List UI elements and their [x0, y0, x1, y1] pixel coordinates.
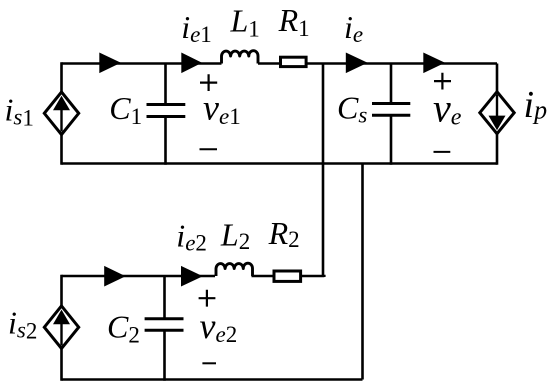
arrow on bottom circuit rail after is2 — [104, 266, 125, 287]
current source is1 diamond — [44, 92, 78, 135]
current source is2 inner arrow — [60, 322, 62, 346]
arrow on top rail after is1 — [99, 53, 121, 74]
wire: left vertical bottom circuit — [60, 275, 63, 381]
capacitor Cs plates — [372, 104, 410, 116]
wire: top circuit bottom rail — [62, 162, 498, 165]
inductor L2 — [216, 263, 253, 276]
arrow after Cs node — [423, 53, 445, 74]
wire: vertical from top bottom rail to lower bottom rail — [361, 164, 364, 380]
inductor L1 — [222, 51, 259, 64]
plus sign ve1 — [200, 74, 217, 91]
wire: bottom circuit top rail right segment — [252, 276, 325, 277]
current source ip diamond — [480, 92, 514, 134]
wire: Cs branch stubs — [390, 64, 393, 165]
wire: C2 branch stubs — [163, 276, 166, 381]
node A: vertical from R1 output node down to R2 output — [322, 64, 325, 277]
resistor R1 — [281, 57, 307, 66]
plus sign ve — [434, 73, 451, 90]
plus sign ve2 — [199, 290, 216, 307]
current source is2 diamond — [44, 306, 78, 349]
wire: right vertical top circuit — [496, 64, 499, 165]
wire: top rail left segment — [62, 62, 222, 65]
wire: C1 branch stubs — [164, 64, 167, 165]
wire: top rail right segment — [258, 62, 497, 65]
minus sign ve2 — [202, 362, 216, 364]
current source is1 inner arrow — [60, 108, 62, 132]
wire: bottom circuit top rail left segment — [62, 275, 216, 278]
capacitor C1 plates — [147, 105, 186, 117]
arrow ie2 — [181, 266, 203, 287]
wire: left vertical top circuit — [60, 62, 63, 165]
wire: bottom circuit bottom rail — [62, 378, 363, 381]
minus sign ve1 — [200, 148, 218, 150]
arrow ie — [346, 53, 368, 74]
minus sign ve — [434, 151, 451, 153]
arrow ie1 — [181, 53, 202, 74]
capacitor C2 plates — [145, 319, 184, 331]
current source ip inner arrow — [496, 95, 498, 119]
resistor R2 — [274, 271, 301, 281]
